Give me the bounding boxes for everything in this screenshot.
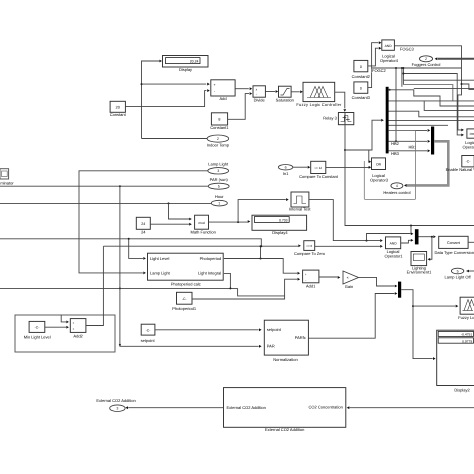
logic block right edge Logical Operator2 [462, 129, 474, 149]
svg-text:setpoint: setpoint [267, 327, 282, 332]
svg-text:Gain: Gain [345, 284, 353, 289]
svg-text:Display: Display [179, 67, 192, 72]
svg-text:0: 0 [360, 65, 362, 69]
constant Photoperiod1 [172, 292, 197, 311]
sum block Add1 [303, 270, 319, 288]
svg-text:Operator4: Operator4 [380, 58, 399, 63]
subsystem boundary heaters area [364, 130, 415, 199]
svg-text:HB3: HB3 [391, 151, 400, 156]
svg-text:Constant: Constant [110, 112, 127, 117]
svg-text:OR: OR [376, 163, 382, 167]
svg-text:Add: Add [219, 96, 226, 101]
svg-text:2: 2 [425, 57, 427, 61]
fuzzy block Fuzzy Logic Controller [296, 82, 342, 107]
wire vertical to mux HB2 input [395, 67, 397, 142]
svg-text:-K-: -K- [346, 277, 350, 280]
svg-text:8: 8 [218, 118, 220, 122]
subsystem Photoperiod calc [148, 253, 224, 286]
svg-text:FOGC2: FOGC2 [372, 68, 387, 73]
relay block Relay 3 [323, 113, 354, 125]
svg-text:+: + [73, 321, 75, 325]
wire Add to Divide [235, 87, 252, 90]
wire from right edge into External CO2 block [347, 406, 474, 409]
wire staircase top [388, 67, 474, 125]
wire Normalization to mux bar4 [308, 292, 397, 338]
svg-text:AND: AND [390, 242, 398, 246]
inport Hour (1) [211, 200, 227, 206]
wire Photoperiod output net [224, 245, 300, 274]
svg-text:+: + [73, 327, 75, 331]
display Display4 (0.703) [252, 215, 307, 235]
wire Indoor Temp to Display and Add [141, 60, 210, 139]
wire mux bar3 to Convert [419, 235, 436, 238]
wire long photoperiod nets left [0, 238, 301, 260]
wire Light Integral output net [0, 273, 285, 296]
svg-text:External CO2 Addition: External CO2 Addition [96, 398, 135, 403]
compare block Compare To Zero (>= 0) [294, 241, 326, 256]
svg-text:Lamp Light: Lamp Light [150, 271, 171, 276]
svg-text:PAR: PAR [267, 343, 275, 348]
svg-text:<= 12: <= 12 [314, 166, 322, 170]
svg-text:HB2: HB2 [391, 141, 400, 146]
svg-text:Add2: Add2 [73, 333, 83, 338]
svg-text:Fuzzy Logic2: Fuzzy Logic2 [458, 315, 474, 320]
svg-text:Convert: Convert [447, 241, 460, 245]
svg-text:Display2: Display2 [454, 388, 470, 393]
wire FOGC3 from Logical Operator4 [394, 46, 464, 132]
wire Constant3 FOGC2 net to Logical Operator4 [368, 41, 382, 87]
wire PAR sun net [0, 185, 208, 187]
gain block Gain [343, 271, 359, 289]
svg-text:Compare To Constant: Compare To Constant [299, 174, 339, 179]
inport Lamp Light (3) [208, 168, 229, 174]
svg-text:Environment1: Environment1 [407, 270, 432, 275]
wire External CO2 block to outport [125, 406, 223, 409]
svg-text:Saturation: Saturation [276, 97, 294, 102]
wire lamp light net [79, 171, 208, 275]
svg-text:0.703: 0.703 [279, 219, 288, 223]
wire Fuzzy Logic Controller to Relay 3 [335, 92, 347, 112]
mux bar2 heaters [431, 127, 434, 155]
svg-text:Hour: Hour [215, 194, 224, 199]
wire hour net [0, 202, 211, 220]
constant Constant (20) [110, 101, 127, 117]
and gate Logical Operator4 [380, 40, 399, 63]
svg-text:-0.4791: -0.4791 [461, 333, 472, 337]
svg-text:Photoperiod calc: Photoperiod calc [171, 281, 201, 286]
sum block Add2 [70, 319, 86, 339]
svg-text:-C-: -C- [35, 326, 40, 330]
svg-text:>= 0: >= 0 [306, 244, 312, 248]
svg-text:mod: mod [198, 221, 204, 225]
sum block Add [211, 80, 235, 101]
svg-text:Light Integral: Light Integral [198, 271, 221, 276]
svg-text:In1: In1 [283, 171, 289, 176]
svg-text:Foggers Control: Foggers Control [412, 62, 441, 67]
wire mux bar4 to Fuzzy Logic2 and Display2 [401, 290, 458, 360]
svg-text:CO2 Concentration: CO2 Concentration [309, 405, 343, 410]
svg-text:Divide: Divide [254, 97, 266, 102]
svg-text:Operator1: Operator1 [384, 253, 403, 258]
svg-text:AND: AND [385, 44, 393, 48]
svg-text:Indoor Temp: Indoor Temp [207, 142, 230, 147]
svg-text:Photoperiod: Photoperiod [200, 256, 222, 261]
or gate Logical Operator3 [370, 158, 389, 183]
constant Enable Natural Ventilation [446, 156, 474, 172]
svg-text:Interval Test: Interval Test [289, 206, 311, 211]
svg-text:6: 6 [285, 166, 287, 170]
wire Gain to mux bar4 [359, 277, 398, 287]
svg-text:-C-: -C- [466, 160, 471, 164]
svg-text:Data Type Conversion: Data Type Conversion [435, 250, 474, 255]
svg-text:Relay 3: Relay 3 [323, 116, 337, 121]
svg-text:Enable Natural Ventilat: Enable Natural Ventilat [446, 167, 474, 172]
constant Min Light Level [24, 321, 51, 339]
svg-text:+: + [305, 272, 307, 276]
svg-text:Add1: Add1 [306, 283, 316, 288]
svg-text:PAR (sun): PAR (sun) [210, 177, 229, 182]
svg-text:Constant3: Constant3 [352, 95, 371, 100]
math block Math Function (mod) [191, 215, 216, 234]
svg-text:Compare To Zero: Compare To Zero [294, 251, 326, 256]
wire branch to Lighting Environment1 [428, 236, 433, 261]
svg-text:Fuzzy Logic Controller: Fuzzy Logic Controller [296, 102, 342, 107]
wire Constant2 to Logical Operator4 [368, 47, 382, 66]
svg-text:24: 24 [141, 222, 145, 226]
svg-text:1: 1 [218, 201, 220, 205]
wire Photoperiod1 to Add1 [192, 278, 300, 299]
area box min light level [15, 315, 115, 352]
svg-text:5: 5 [457, 269, 459, 273]
fuzzy block Fuzzy Logic2 [458, 297, 474, 320]
outport Foggers Control (2) [419, 56, 432, 62]
svg-text:Lamp Light: Lamp Light [208, 161, 229, 166]
svg-text:PARfc: PARfc [295, 335, 306, 340]
svg-text:Min Light Level: Min Light Level [24, 335, 51, 340]
interval test block [289, 192, 311, 211]
svg-text:Heaters control: Heaters control [383, 190, 410, 195]
wire Add1 to Gain [319, 276, 340, 279]
svg-text:2: 2 [217, 137, 219, 141]
svg-text:Constant1: Constant1 [210, 125, 229, 130]
wire Constant1 to Divide [228, 92, 253, 119]
thick wire into Foggers Control [435, 57, 474, 60]
svg-text:-C-: -C- [146, 328, 151, 332]
saturation block Saturation [276, 86, 294, 102]
wire Constant to Add minus input [125, 89, 209, 106]
svg-text:Light Level: Light Level [150, 256, 169, 261]
svg-text:OR: OR [470, 132, 474, 136]
inport In1 (6) [278, 165, 292, 170]
wire into Add2 upper [61, 315, 69, 324]
wire PAR to Normalization [119, 186, 262, 348]
wire Divide to Saturation [265, 90, 278, 93]
wire Add2 output to compare net [86, 246, 104, 325]
wire Compare To Zero to Logical Operator1 [315, 245, 383, 248]
svg-text:Math Function: Math Function [191, 229, 216, 234]
product block Divide [253, 86, 266, 103]
and gate Logical Operator1 [384, 237, 403, 259]
mux bar4 [398, 282, 401, 298]
outport Lamp Light Off (5) [451, 268, 463, 274]
wire In1 to Compare To Constant [293, 166, 311, 169]
svg-text:÷: ÷ [256, 93, 258, 97]
svg-text:0: 0 [360, 86, 362, 90]
svg-text:Operator2: Operator2 [462, 144, 474, 149]
svg-text:Lamp Light Off: Lamp Light Off [445, 275, 472, 280]
wire into Lamp Light Off [466, 270, 474, 273]
svg-text:20: 20 [116, 106, 120, 110]
compare block Compare To Constant (<= 12) [299, 161, 339, 179]
subsystem Normalization [264, 320, 308, 362]
wire Logical Operator1 to mux bar3 [401, 239, 414, 243]
svg-text:3: 3 [217, 169, 219, 173]
display Display2 [437, 330, 474, 392]
wires mux bar to heater mux bar2 [388, 129, 430, 152]
svg-text:Photoperiod1: Photoperiod1 [172, 306, 197, 311]
svg-text:0.9779: 0.9779 [462, 339, 472, 343]
thick wire heaters mux to Heaters control [404, 141, 448, 187]
svg-text:3: 3 [116, 407, 118, 411]
svg-text:24: 24 [141, 229, 146, 234]
svg-text:-C-: -C- [182, 297, 187, 301]
svg-text:Constant2: Constant2 [352, 74, 371, 79]
svg-text:Normalization: Normalization [273, 357, 297, 362]
constant Constant2 (0) [352, 60, 371, 78]
display Display (20.24) [163, 56, 209, 72]
wire mod output to Display4 and Interval Test [209, 198, 289, 223]
terminator icon left edge [0, 169, 14, 186]
wire Min Light Level to Add2 [45, 326, 69, 329]
constant 24 [136, 217, 150, 234]
wire FOGC2 long net [372, 67, 474, 136]
svg-text:5: 5 [218, 185, 220, 189]
wire 24 to Math Function [150, 223, 192, 226]
constant setpoint [141, 324, 156, 343]
convert block Data Type Conversion [435, 236, 474, 255]
svg-text:minator: minator [0, 180, 14, 185]
wire setpoint to Normalization [155, 328, 262, 331]
signal labels HB2 HB1 HB3 [391, 141, 417, 156]
svg-text:External CO2 Addition: External CO2 Addition [227, 405, 266, 410]
wire Interval Test output to Logical Operator1 [309, 200, 410, 242]
outport Heaters control (4) [391, 183, 403, 189]
svg-text:External CO2 Addition: External CO2 Addition [265, 427, 304, 432]
svg-text:Display4: Display4 [272, 230, 288, 235]
mux bar3 lighting [415, 229, 419, 244]
wire relay output to OR and mux [344, 119, 474, 235]
svg-text:-: - [305, 278, 306, 282]
svg-text:FOGC3: FOGC3 [400, 46, 415, 51]
inport Indoor Temp (2) [207, 135, 229, 142]
outport External CO2 Addition (3) [96, 398, 135, 412]
svg-text:+: + [214, 83, 216, 87]
svg-text:setpoint: setpoint [141, 338, 156, 343]
svg-text:Operator3: Operator3 [370, 178, 389, 183]
inport PAR sun (5) [208, 183, 229, 189]
constant Constant3 (0) [352, 82, 371, 100]
subsystem External CO2 Addition [224, 388, 346, 432]
scope block Lighting Environment1 [407, 252, 432, 275]
wire Compare To Constant to OR [326, 166, 371, 169]
mux bar main [386, 87, 389, 154]
svg-text:20.24: 20.24 [190, 60, 199, 64]
constant Constant1 (8) [210, 113, 229, 130]
svg-text:4: 4 [396, 184, 398, 188]
wire Convert output [468, 241, 474, 243]
wire Saturation to Fuzzy Logic Controller [291, 90, 303, 93]
